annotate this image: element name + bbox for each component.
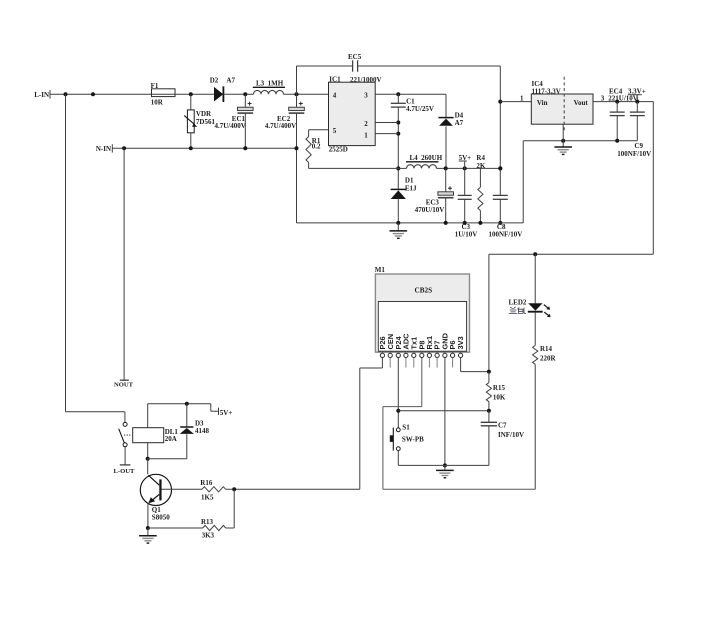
svg-text:LED2: LED2 — [509, 299, 527, 307]
svg-text:4.7U/400V: 4.7U/400V — [215, 122, 246, 130]
svg-text:N-IN: N-IN — [96, 145, 111, 153]
svg-text:100NF/10V: 100NF/10V — [617, 150, 651, 158]
svg-text:L-OUT: L-OUT — [114, 468, 135, 475]
svg-text:4148: 4148 — [195, 427, 210, 435]
svg-text:5V+: 5V+ — [220, 409, 233, 417]
svg-text:1K5: 1K5 — [201, 493, 214, 501]
svg-text:3: 3 — [601, 94, 605, 102]
svg-text:R14: R14 — [540, 345, 553, 353]
svg-text:L-IN: L-IN — [34, 91, 49, 99]
svg-text:R4: R4 — [476, 154, 485, 162]
svg-text:2: 2 — [364, 120, 368, 128]
svg-text:4.7U/400V: 4.7U/400V — [265, 122, 296, 130]
svg-text:R16: R16 — [200, 479, 213, 487]
svg-text:L3 1MH: L3 1MH — [256, 79, 284, 87]
svg-text:221U/10V: 221U/10V — [608, 94, 638, 102]
svg-text:SW-PB: SW-PB — [402, 435, 424, 443]
svg-text:F1: F1 — [151, 82, 159, 90]
svg-text:1117-3.3V: 1117-3.3V — [532, 87, 561, 95]
svg-text:R15: R15 — [493, 384, 506, 392]
svg-text:A7: A7 — [226, 76, 235, 84]
svg-text:D1: D1 — [405, 176, 414, 184]
svg-text:3K3: 3K3 — [202, 531, 215, 539]
svg-text:10R: 10R — [151, 98, 164, 106]
svg-text:S1: S1 — [402, 424, 410, 432]
svg-text:Vin: Vin — [537, 99, 548, 107]
svg-text:L4 260UH: L4 260UH — [410, 154, 443, 162]
svg-text:10K: 10K — [493, 393, 506, 401]
svg-text:S8050: S8050 — [152, 514, 170, 522]
svg-text:NOUT: NOUT — [114, 381, 134, 388]
svg-text:VDR: VDR — [196, 110, 212, 118]
svg-text:EC4: EC4 — [609, 88, 623, 96]
svg-text:C7: C7 — [498, 421, 507, 429]
svg-text:0.2: 0.2 — [312, 143, 321, 151]
svg-text:3: 3 — [364, 92, 368, 100]
svg-text:M1: M1 — [375, 266, 386, 274]
svg-text:CB2S: CB2S — [415, 286, 433, 294]
svg-text:R13: R13 — [201, 518, 214, 526]
svg-text:C9: C9 — [634, 142, 643, 150]
svg-text:2525D: 2525D — [329, 146, 348, 154]
svg-text:1: 1 — [364, 132, 368, 140]
svg-text:INF/10V: INF/10V — [498, 431, 524, 439]
svg-text:4: 4 — [333, 92, 337, 100]
svg-text:1: 1 — [520, 94, 524, 102]
svg-text:1U/10V: 1U/10V — [455, 231, 478, 239]
svg-text:2K: 2K — [476, 162, 486, 170]
svg-text:5: 5 — [333, 127, 337, 135]
svg-text:470U/10V: 470U/10V — [415, 206, 445, 214]
svg-text:A7: A7 — [455, 119, 464, 127]
svg-text:20A: 20A — [165, 435, 177, 443]
svg-text:Vout: Vout — [574, 99, 589, 107]
svg-text:100NF/10V: 100NF/10V — [489, 231, 523, 239]
svg-text:EC5: EC5 — [348, 53, 362, 61]
svg-text:7D561: 7D561 — [196, 118, 216, 126]
svg-text:3V3: 3V3 — [456, 336, 465, 349]
svg-text:E1J: E1J — [405, 185, 417, 193]
svg-text:IC1: IC1 — [329, 75, 341, 83]
svg-text:220R: 220R — [540, 355, 557, 363]
svg-text:4.7U/25V: 4.7U/25V — [406, 105, 434, 113]
svg-text:D2: D2 — [210, 76, 219, 84]
